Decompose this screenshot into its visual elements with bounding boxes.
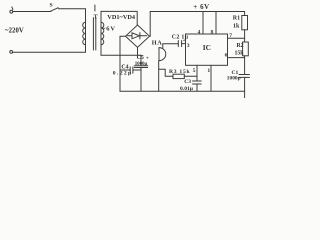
wire secondary top to bridge top vertex bbox=[101, 11, 137, 25]
svg-text:S: S bbox=[50, 3, 53, 9]
resistor R1 bbox=[233, 16, 248, 30]
pin 6 bbox=[225, 52, 245, 58]
wire from switch to transformer primary top bbox=[58, 9, 85, 23]
svg-text:HA: HA bbox=[152, 40, 162, 47]
buzzer top lead to C2 bbox=[163, 44, 179, 48]
capacitor C1 bbox=[227, 70, 250, 82]
svg-text:1k: 1k bbox=[233, 23, 240, 29]
buzzer ground branch bbox=[159, 68, 166, 70]
transformer secondary winding bbox=[101, 22, 104, 44]
op-amp/timer IC box bbox=[186, 34, 228, 65]
svg-text:+ 6V: + 6V bbox=[193, 4, 209, 11]
pin 7 bbox=[228, 33, 245, 39]
svg-text:C2 1μ: C2 1μ bbox=[172, 34, 189, 40]
capacitor C2 bbox=[172, 34, 189, 46]
wire C1 bottom to ground rail bbox=[244, 77, 246, 91]
svg-text:~220V: ~220V bbox=[5, 28, 24, 35]
svg-text:R2: R2 bbox=[237, 43, 244, 49]
wire C2 to IC pin3 bbox=[182, 43, 186, 45]
wire R2 bottom to C1 bbox=[244, 56, 246, 75]
wire R3 right to pin5 line bbox=[184, 75, 197, 77]
svg-text:R3 15k: R3 15k bbox=[169, 69, 190, 75]
svg-text:VD1~VD4: VD1~VD4 bbox=[107, 14, 136, 21]
svg-text:C4: C4 bbox=[121, 64, 128, 70]
transformer core bbox=[93, 5, 95, 50]
resistor R3 bbox=[169, 69, 190, 79]
capacitor C3 bbox=[180, 79, 201, 92]
buzzer HA bbox=[152, 40, 166, 61]
wire bridge right vertex up to +6V rail bbox=[150, 12, 245, 37]
pin 1 bbox=[207, 65, 211, 91]
svg-text:8: 8 bbox=[211, 30, 214, 36]
wire R1 bottom to pin7 node bbox=[244, 30, 246, 42]
wire bridge left vertex down to ground rail bbox=[120, 36, 126, 91]
svg-text:5: 5 bbox=[193, 68, 196, 74]
wire secondary bottom to bridge bottom stem bbox=[101, 45, 141, 56]
wire from top-left terminal to switch bbox=[13, 11, 51, 13]
wire R3 left to buzzer ground node bbox=[165, 69, 173, 76]
svg-text:C3: C3 bbox=[184, 79, 191, 85]
wire C5 branch bbox=[140, 55, 142, 91]
svg-text:1000p: 1000p bbox=[227, 76, 241, 82]
pin 4 bbox=[198, 12, 204, 36]
bridge rectifier VD1~VD4 diamond bbox=[126, 25, 150, 47]
svg-text:IC: IC bbox=[203, 43, 211, 52]
switch S bbox=[50, 3, 59, 12]
bridge bottom vertex stem bbox=[137, 47, 139, 55]
svg-text:T: T bbox=[94, 14, 98, 20]
svg-text:7: 7 bbox=[229, 33, 232, 39]
terminal bottom-left bbox=[10, 51, 13, 54]
capacitor C5 bbox=[134, 55, 149, 68]
wire C4 branch bbox=[120, 69, 141, 71]
wire from bottom-left terminal to transformer primary bottom bbox=[13, 45, 86, 53]
svg-text:~6V: ~6V bbox=[102, 26, 115, 33]
svg-text:4: 4 bbox=[198, 30, 201, 36]
svg-text:R1: R1 bbox=[233, 16, 240, 22]
pin 5 bbox=[193, 65, 197, 81]
pin 8 bbox=[211, 12, 217, 36]
svg-text:1: 1 bbox=[207, 68, 210, 74]
resistor R2 bbox=[235, 42, 249, 56]
transformer T primary winding bbox=[83, 22, 86, 44]
buzzer bottom lead bbox=[158, 61, 160, 91]
terminal top-left bbox=[10, 7, 13, 13]
wire C3 bottom to ground rail bbox=[196, 84, 198, 91]
capacitor C4 bbox=[113, 64, 133, 76]
diode inside bridge bbox=[128, 33, 147, 39]
svg-text:3: 3 bbox=[187, 43, 190, 49]
svg-text:15k: 15k bbox=[235, 50, 245, 56]
svg-text:C5: C5 bbox=[137, 55, 144, 61]
svg-text:+: + bbox=[146, 55, 149, 61]
ground rail bottom bbox=[120, 91, 245, 98]
